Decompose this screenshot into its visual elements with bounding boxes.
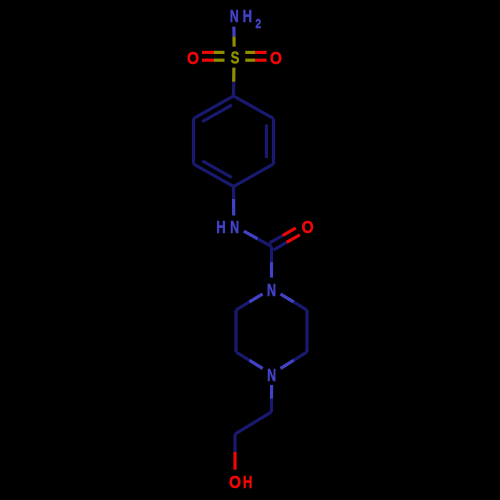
bond CH2-OH: [233, 434, 236, 470]
svg-text:N: N: [230, 218, 239, 238]
bond C(=O)-N1: [270, 247, 273, 278]
svg-text:H: H: [216, 218, 226, 237]
benzene edge C5-C6 (double): [267, 119, 274, 165]
benzene edge C6-C1: [234, 96, 274, 119]
bond N(H)-C(=O): [244, 231, 272, 246]
bond C(pip LL)-N4: [236, 352, 263, 369]
benzene edge C4-C5: [234, 164, 274, 187]
double bond S=O right: [245, 52, 266, 60]
bond C4-N(H): [232, 187, 235, 216]
svg-text:N: N: [230, 7, 239, 27]
bond S-C1(ring): [232, 68, 236, 96]
bond N1-C(pip UR): [281, 294, 308, 310]
bond N(H2)-S: [232, 27, 235, 47]
bond piperazine right edge: [305, 310, 308, 352]
bond piperazine left edge: [234, 310, 237, 352]
bond N4-CH2: [270, 385, 273, 412]
bond C(pip LR)-N4: [281, 352, 308, 369]
svg-text:N: N: [267, 366, 276, 386]
svg-text:H: H: [243, 7, 253, 26]
double bond C=O: [270, 228, 300, 250]
bond N1-C(pip UL): [236, 294, 263, 310]
svg-text:H: H: [243, 473, 253, 492]
benzene edge C1-C2 (double): [194, 96, 234, 122]
double bond S=O left: [202, 52, 225, 60]
svg-text:O: O: [302, 217, 314, 237]
svg-text:S: S: [231, 49, 240, 68]
svg-text:O: O: [270, 48, 282, 68]
svg-text:N: N: [267, 281, 276, 301]
svg-text:O: O: [187, 48, 199, 68]
svg-text:O: O: [229, 472, 241, 492]
bond CH2-CH2: [235, 412, 272, 434]
svg-text:2: 2: [255, 17, 261, 31]
benzene edge C3-C4 (double): [194, 161, 234, 187]
benzene edge C2-C3: [192, 119, 195, 165]
